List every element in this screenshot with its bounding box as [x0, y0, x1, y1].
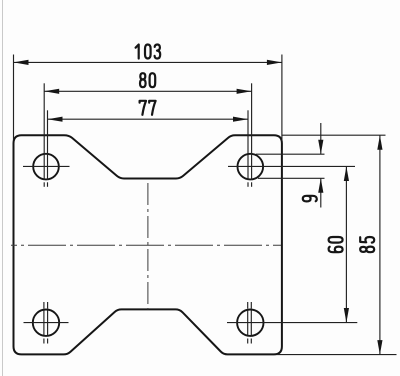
extension line 77 right (through TR hole)	[247, 110, 249, 180]
label 77	[140, 101, 156, 115]
extension line 80 left (through TL hole)	[43, 83, 45, 180]
label 9 (vertical)	[303, 196, 317, 202]
hole top-right	[238, 154, 264, 180]
dim 85 line	[379, 135, 381, 354]
dim 103 line	[14, 61, 282, 63]
plate outline	[14, 135, 282, 354]
hole bottom-right	[237, 310, 263, 336]
dim 80 arrow right	[237, 89, 252, 94]
dim 103 extension left	[13, 55, 15, 141]
extension line 80 right (through TR hole)	[251, 83, 253, 180]
centerline horizontal (plate)	[11, 244, 281, 246]
dim 60 line	[345, 166, 347, 322]
hole bottom-left	[33, 310, 59, 336]
label 60 (vertical)	[329, 237, 343, 252]
dim 85 extension top	[282, 134, 386, 136]
dim 60 arrow bottom	[344, 308, 349, 323]
dim 9 upper arrow (down)	[318, 140, 323, 155]
dim 77 line	[48, 118, 249, 120]
dim 103 arrow right	[267, 60, 282, 65]
dim 9 upper tail	[320, 123, 322, 154]
dim 85 arrow top	[377, 135, 382, 150]
dim 60 arrow top	[344, 166, 349, 181]
hole TL horizontal centerline	[23, 165, 70, 167]
hole TR horizontal centerline (extension to 60 dim)	[228, 165, 355, 167]
dim 77 arrow left	[48, 117, 63, 122]
label 80	[140, 73, 155, 87]
hole BL horizontal centerline	[24, 322, 69, 324]
dim 103 arrow left	[14, 60, 29, 65]
dim 9 tangent extension bottom	[258, 177, 325, 179]
dim 9 lower tail	[320, 178, 322, 207]
BL hole vertical marks	[43, 302, 45, 309]
scan border line left	[2, 0, 4, 376]
BR hole vertical marks	[247, 302, 249, 309]
label 85 (vertical)	[360, 237, 374, 252]
dim 80 line	[44, 90, 251, 92]
dim 9 tangent extension top	[256, 153, 325, 155]
hole BR horizontal centerline (extension to 60 dim)	[227, 322, 357, 324]
label 103	[136, 45, 161, 59]
dim 9 lower arrow (up)	[318, 178, 323, 193]
dim 103 extension right	[281, 55, 283, 142]
dim 85 extension bottom	[277, 354, 397, 356]
centerline vertical (plate)	[147, 183, 149, 309]
dim 77 arrow right	[233, 117, 248, 122]
extension line 77 left (through TL hole)	[47, 110, 49, 180]
dim 85 arrow bottom	[377, 340, 382, 355]
dim 80 arrow left	[44, 89, 59, 94]
hole top-left	[33, 154, 59, 180]
